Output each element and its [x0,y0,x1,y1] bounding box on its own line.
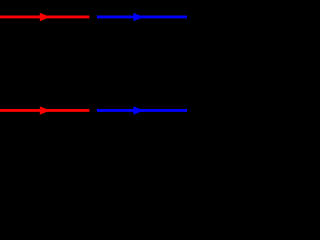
arrowhead on top blue wire [133,13,143,22]
arrowhead on top red wire [40,13,50,22]
arrowhead on bottom red wire [40,106,50,115]
wire: bottom blue segment [97,109,187,112]
wire: top blue segment [97,15,187,18]
arrowhead on bottom blue wire [133,106,143,115]
wire: bottom red segment [0,109,89,112]
wire: top red segment [0,15,89,18]
